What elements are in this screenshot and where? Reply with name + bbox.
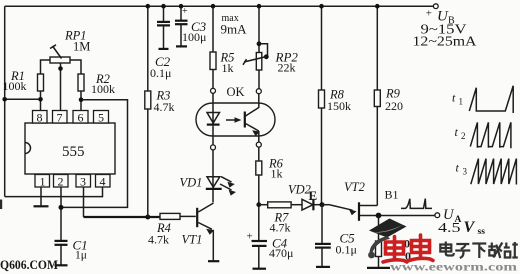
waveform t1	[452, 86, 513, 113]
watermark graduation cap icon	[368, 219, 406, 259]
potentiometer RP1	[41, 29, 91, 111]
svg-text:100k: 100k	[91, 82, 115, 96]
wire pin4 reset to rail line	[5, 187, 103, 197]
waveform pulse glyph near B1	[401, 199, 432, 209]
resistor R3	[145, 4, 175, 217]
node max 9mA label	[221, 13, 248, 37]
resistor R1	[3, 69, 44, 99]
capacitor C3	[175, 4, 207, 47]
potentiometer RP2	[243, 4, 298, 89]
svg-text:220: 220	[385, 99, 403, 113]
svg-text:Q606.COM: Q606.COM	[0, 257, 58, 272]
svg-text:555: 555	[62, 144, 85, 160]
waveform t2	[455, 122, 511, 148]
svg-text:4.7k: 4.7k	[148, 233, 169, 247]
wire VT2 collector to output	[360, 213, 435, 219]
svg-text:0.1μ: 0.1μ	[150, 66, 171, 80]
node B1 label	[385, 188, 399, 202]
svg-text:3: 3	[463, 167, 468, 177]
IC 555 timer	[25, 111, 115, 189]
waveform t3	[456, 159, 517, 185]
svg-text:4.7k: 4.7k	[154, 100, 175, 114]
wire left rail	[4, 6, 6, 196]
resistor R8	[319, 4, 352, 205]
svg-text:+: +	[182, 6, 188, 17]
svg-text:2: 2	[58, 175, 64, 189]
svg-text:22k: 22k	[278, 61, 296, 75]
transistor VT1	[182, 203, 220, 261]
svg-text:5: 5	[98, 111, 104, 125]
wire pin3 bus to R4	[84, 215, 161, 220]
svg-text:1: 1	[459, 97, 464, 107]
optocoupler OK	[196, 85, 275, 150]
svg-text:8: 8	[37, 111, 43, 125]
transistor VT2	[322, 180, 377, 221]
ground pin1	[34, 205, 49, 207]
diode VD2	[288, 183, 321, 211]
wire pin3 output	[83, 187, 85, 217]
svg-text:1k: 1k	[271, 167, 283, 181]
wire top +V rail	[5, 5, 434, 7]
resistor R10	[367, 216, 411, 268]
svg-text:VT2: VT2	[344, 180, 365, 194]
wire R1 bottom to left rail and pin 8	[2, 97, 42, 110]
svg-text:150k: 150k	[327, 99, 351, 113]
node +UB label	[413, 8, 477, 49]
svg-text:B1: B1	[385, 188, 399, 202]
svg-text:t: t	[452, 91, 456, 105]
svg-text:www.eeworm.com: www.eeworm.com	[390, 261, 518, 273]
resistor R2	[78, 72, 115, 110]
svg-text:100μ: 100μ	[182, 30, 206, 44]
svg-text:ss: ss	[478, 227, 486, 237]
svg-text:9mA: 9mA	[221, 22, 248, 37]
svg-text:+: +	[425, 8, 432, 20]
resistor R5	[210, 4, 234, 88]
terminal UA	[435, 213, 440, 218]
svg-text:100k: 100k	[3, 79, 27, 93]
svg-text:2: 2	[461, 131, 466, 141]
node E junction	[309, 188, 325, 207]
svg-text:12~25mA: 12~25mA	[413, 34, 477, 49]
wire pin2 down	[59, 187, 64, 240]
wire scan artifact left edge	[0, 200, 2, 210]
svg-text:VT1: VT1	[182, 233, 203, 247]
svg-text:7: 7	[57, 111, 63, 125]
svg-text:0.1μ: 0.1μ	[336, 243, 357, 257]
capacitor C2	[150, 4, 171, 80]
capacitor C4	[247, 207, 294, 269]
svg-text:1: 1	[40, 175, 46, 189]
svg-text:t: t	[456, 161, 460, 175]
resistor R9	[374, 4, 403, 206]
watermark chongchong red characters	[383, 235, 433, 262]
svg-text:470μ: 470μ	[269, 246, 293, 260]
svg-text:OK: OK	[227, 85, 245, 99]
node UA label	[438, 207, 485, 237]
svg-text:1k: 1k	[222, 61, 234, 75]
resistor R4	[148, 213, 196, 246]
svg-text:4.5: 4.5	[438, 221, 461, 236]
svg-text:4.7k: 4.7k	[270, 221, 291, 235]
svg-text:VD2: VD2	[288, 183, 311, 197]
watermark dianzi xiazaizhan characters	[440, 242, 518, 259]
svg-text:1M: 1M	[73, 40, 90, 54]
watermark url	[390, 261, 518, 273]
capacitor C5	[315, 205, 357, 267]
resistor R6	[256, 147, 284, 207]
wire pin1 to ground bar	[40, 187, 42, 206]
svg-text:V: V	[464, 219, 476, 236]
svg-text:E: E	[309, 188, 318, 203]
svg-text:4: 4	[100, 175, 106, 189]
svg-text:1μ: 1μ	[75, 250, 87, 262]
LED VD1	[180, 150, 237, 202]
node Q606.COM watermark	[0, 257, 58, 272]
wire pin6/R2 to pin2 bus	[61, 97, 128, 207]
terminal +UB	[433, 4, 438, 9]
svg-text:3: 3	[80, 175, 86, 189]
svg-text:t: t	[455, 125, 459, 139]
capacitor C1	[55, 238, 88, 266]
svg-text:VD1: VD1	[180, 176, 203, 190]
svg-text:6: 6	[78, 111, 84, 125]
resistor R7	[259, 202, 302, 235]
